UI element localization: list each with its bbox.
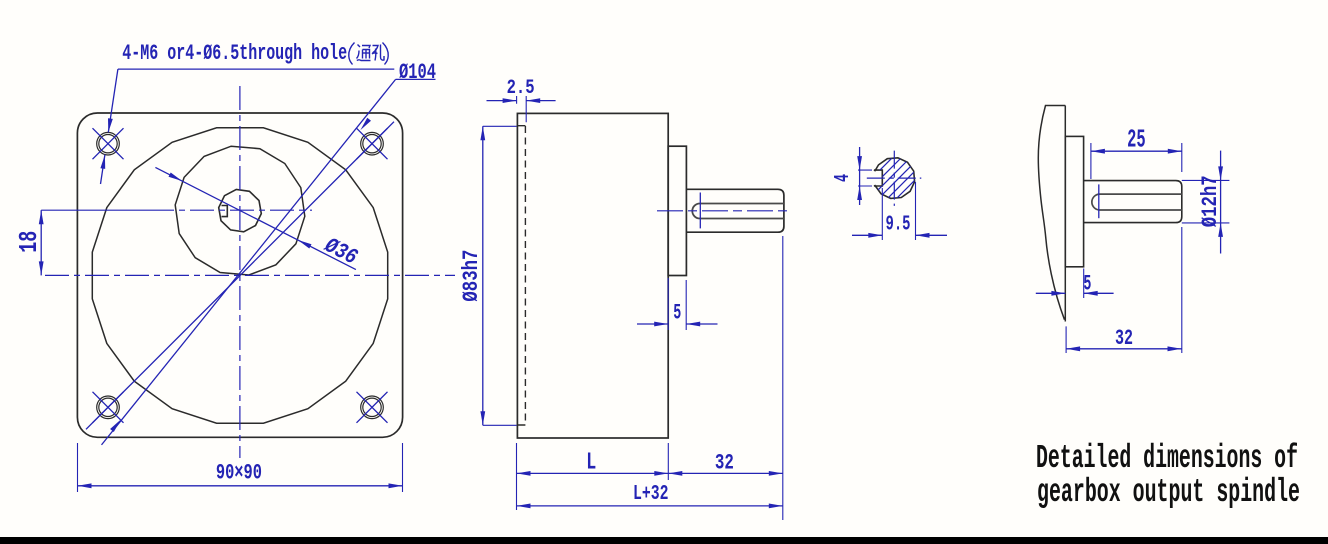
dimension D12h7 <box>1182 180 1230 223</box>
svg-text:5: 5 <box>1083 272 1091 297</box>
svg-text:18: 18 <box>14 231 44 253</box>
left view: top-left mounting hole circles <box>97 132 120 155</box>
dimension 5 (right) <box>1083 269 1085 299</box>
svg-text:2.5: 2.5 <box>507 77 535 100</box>
left view: vertical centerline <box>239 86 241 458</box>
svg-text:Ø104: Ø104 <box>399 60 436 85</box>
svg-text:4-M6 or4-Ø6.5through hole: 4-M6 or4-Ø6.5through hole <box>122 41 347 66</box>
dimension 9.5 (section) <box>882 182 915 240</box>
left view: boss circle D36 (polygon) <box>175 146 305 275</box>
left view: bottom-left mounting hole circles <box>97 396 120 419</box>
left view: top-left hole cross lines <box>93 128 124 159</box>
left view: bottom-left hole cross lines <box>93 392 124 423</box>
svg-text:90×90: 90×90 <box>216 460 262 485</box>
left view: plate outline <box>77 113 402 437</box>
left view: center hole polygon <box>219 189 262 231</box>
bottom black bar <box>0 537 1328 544</box>
left view: bottom-right hole cross lines <box>357 392 388 423</box>
middle view: body rectangle <box>517 113 668 438</box>
dimension 90x90 bottom <box>77 443 79 492</box>
right view: boss <box>1065 136 1083 266</box>
svg-text:5: 5 <box>673 300 681 325</box>
svg-text:9.5: 9.5 <box>886 214 911 237</box>
dimension D83h7 <box>483 126 517 425</box>
svg-text:32: 32 <box>715 450 734 475</box>
middle view: flat end tick <box>699 193 701 229</box>
left view: diagonal line through top-right and bottom-left holes <box>86 122 394 430</box>
middle view: shaft flat lines and milled end <box>692 204 784 219</box>
svg-text:Detailed dimensions of: Detailed dimensions of <box>1036 440 1298 477</box>
label 4-M6 leader and hole diameter arrows <box>118 68 394 70</box>
middle view: shaft centerline <box>657 210 792 212</box>
left view: horizontal centerline through boss center <box>41 209 150 211</box>
dimension 5 (middle) <box>668 278 686 330</box>
dimension 32 (right) <box>1066 227 1182 353</box>
right view: shaft <box>1084 181 1182 223</box>
dimension D104 diagonal line with text <box>102 79 396 445</box>
left view: bottom-right mounting hole circles <box>361 396 384 419</box>
dimension 25 <box>1091 143 1182 179</box>
right view: broken wall <box>1038 106 1065 322</box>
left view: horizontal centerline of plate <box>45 274 455 276</box>
svg-text:25: 25 <box>1127 125 1146 155</box>
svg-text:gearbox output spindle: gearbox output spindle <box>1037 474 1300 511</box>
right view: flat end tick <box>1098 184 1100 218</box>
dimension 4 (section) <box>858 170 872 186</box>
middle view: pilot edges <box>517 126 525 425</box>
svg-text:32: 32 <box>1115 326 1133 351</box>
left view: top-right mounting hole circles <box>361 132 384 155</box>
svg-text:Ø36: Ø36 <box>320 233 361 271</box>
svg-text:L+32: L+32 <box>633 483 669 506</box>
dimension L and 32 (middle bottom) <box>517 236 783 520</box>
middle view: output shaft <box>687 189 784 232</box>
right view: shaft flat lines <box>1092 194 1182 210</box>
svg-text:Ø12h7: Ø12h7 <box>1198 175 1223 227</box>
middle view: pilot hidden dashed line <box>524 126 526 425</box>
svg-text:4: 4 <box>832 174 855 182</box>
label CJK (tong kong) <box>349 43 388 65</box>
section view: centerlines <box>893 151 895 206</box>
svg-text:L: L <box>586 449 596 476</box>
dimension 2.5 <box>517 96 527 122</box>
section view: shaft cross-section outline with notch <box>874 158 915 199</box>
dimension D36 with leader <box>155 167 356 269</box>
dimension 18 left <box>40 210 42 275</box>
middle view: output boss <box>668 146 686 275</box>
dimension L+32 <box>517 505 783 507</box>
svg-text:Ø83h7: Ø83h7 <box>459 250 484 302</box>
left view: center hole keyway notch <box>222 206 228 217</box>
left view: gearbox body circle (polygon) <box>92 128 387 423</box>
left view: top-right hole cross lines <box>357 128 388 159</box>
